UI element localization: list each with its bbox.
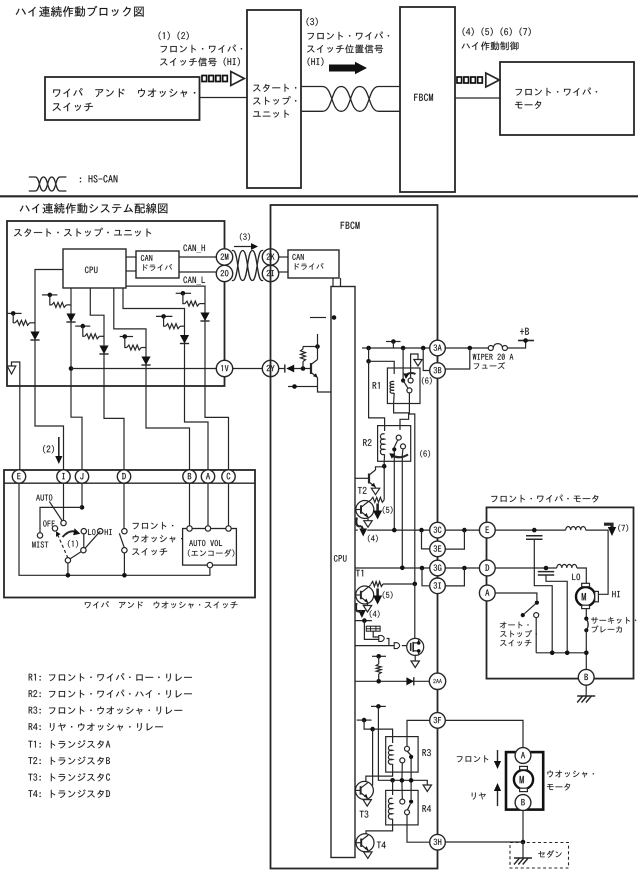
wire T2 drv emitter (367, 517, 369, 521)
block wiper-washer switch (45, 77, 200, 120)
+B tap (518, 338, 534, 343)
wire CPU pin net1 (35, 270, 63, 387)
arrow CAN signal (329, 62, 367, 74)
wire common to bus (67, 563, 69, 575)
wire cap E down (534, 539, 552, 653)
wire res to junction net1 (30, 322, 35, 324)
junction rail R3low (400, 778, 405, 783)
relay R3 contact top (405, 746, 410, 751)
wire D to washer contact (123, 483, 125, 528)
junction 3C 3E (419, 528, 424, 533)
label front direction (457, 755, 488, 762)
wire osc down (373, 631, 379, 637)
relay R2 coil (380, 434, 384, 455)
label CPU unit (85, 266, 98, 273)
connector 3B (430, 363, 446, 379)
wire cpu gate2 (355, 645, 394, 647)
label (7) (618, 524, 628, 532)
label T4 (377, 842, 386, 849)
resistor 2AA (376, 664, 381, 674)
legend T1 (28, 740, 110, 748)
signal arrow switch to unit (202, 72, 244, 86)
connector C switch (222, 470, 235, 483)
resistor pull-up net2 (52, 302, 67, 307)
wire T3 base (354, 789, 357, 791)
wire 1V to 2Y (233, 368, 263, 370)
leader AUTO (49, 501, 62, 520)
wire CPU pin net6 (114, 288, 146, 386)
arrow rear direction (494, 783, 501, 806)
wiper washer switch box (4, 470, 255, 598)
label washer motor l1 (547, 770, 593, 777)
wire fuse to +B (507, 341, 525, 349)
diode 2AA (406, 677, 413, 685)
label R3 (422, 749, 430, 756)
relay R4 coil (388, 798, 392, 819)
junction stub2 T3 (370, 727, 375, 732)
label start stop unit l2 (253, 96, 296, 105)
transistor T2 upper (369, 470, 376, 487)
wire R1 NO down (409, 393, 414, 584)
ground arrow T1 driver (363, 606, 371, 613)
wire res to junction net3 (99, 335, 104, 337)
connector 3F (430, 713, 446, 729)
wire 3E external loop (446, 530, 465, 549)
washer switch arm (119, 533, 124, 548)
arrow (7) (604, 524, 616, 536)
junction 2Y base (301, 366, 306, 371)
washer motor M (514, 766, 533, 791)
junction J line (80, 505, 85, 510)
junction 3G R2low (400, 566, 405, 571)
front wiper motor box (487, 507, 634, 678)
junction 3H ground (521, 840, 526, 845)
wire J to MIST (40, 507, 82, 532)
wire D coil to LO (577, 568, 587, 583)
label wiper and washer switch box (85, 601, 238, 608)
wire 2K to CAN driver (279, 256, 288, 258)
label (4) T1 (370, 610, 380, 618)
label front wiper switch signal l2 (160, 57, 240, 66)
wire T2 drv base (355, 509, 356, 511)
wire res top (302, 347, 304, 350)
ground motor B (577, 696, 595, 703)
wire rail gnd elbow (425, 780, 428, 785)
relay R1 contact NO (407, 388, 412, 393)
label high operation control (462, 41, 519, 50)
power stub net3 (75, 324, 90, 329)
wire net2 to J (71, 386, 82, 470)
connector 2K (262, 249, 278, 265)
rotation arrow wiper switch (63, 528, 81, 537)
wire mosfet drain (414, 584, 416, 639)
relay R2 actuation arrow (389, 453, 408, 459)
wire R4 low to 3H (407, 815, 429, 842)
wire 3A-3B link (437, 356, 439, 363)
connector E switch (12, 470, 25, 483)
junction rail R1 (401, 346, 406, 351)
wire R2 coil bottom (383, 455, 385, 500)
contact arm tap (81, 548, 86, 553)
wire stub2 drop (392, 342, 394, 349)
label M washer (520, 776, 524, 783)
junction net2 1V line (69, 366, 74, 371)
label (6) R1 (422, 377, 432, 385)
label CPU FBCM (334, 555, 347, 562)
inductor E (566, 527, 586, 531)
resistor T1 drive (371, 582, 383, 587)
relay R4 box (386, 790, 418, 825)
wire 3I external loop (446, 568, 465, 586)
connector 3A (430, 340, 446, 356)
wire C to AUTO VOL (228, 483, 230, 526)
label CAN driver FBCM (295, 263, 324, 270)
wire gate2 out (402, 645, 407, 647)
autostop contact fixed (534, 613, 539, 618)
resistor pull-up net4 (185, 301, 200, 306)
diode net1 (30, 332, 39, 341)
label front washer switch l2 (133, 535, 183, 543)
wire res to junction net4 (199, 303, 205, 305)
wire stub drop net4 (183, 293, 185, 303)
wire stub2 to emitter (304, 386, 318, 388)
label (1)(2) (158, 32, 188, 41)
arrow (2) (55, 437, 62, 464)
diode net6 (141, 357, 150, 366)
wire E coil to corner (586, 530, 608, 594)
wire 3B external elbow (445, 348, 470, 369)
power stub net1 (7, 311, 22, 316)
relay R1 pivot (401, 378, 405, 382)
power stub net2 (42, 293, 57, 298)
relay R3 contact low (400, 758, 405, 763)
wire net3 to D (104, 386, 124, 470)
label front wiper switch signal l1 (161, 45, 243, 53)
legend R3 (29, 706, 183, 714)
relay R1 box (387, 368, 420, 404)
relay R2 pivot (392, 447, 396, 451)
wire 2I to CAN driver (279, 271, 288, 273)
wire CAN driver to CPU a (332, 278, 334, 287)
transistor T2 driver circle (356, 501, 374, 519)
relay R3 arm (407, 751, 411, 755)
inductor D (557, 564, 577, 568)
wire stub drop net5 (164, 316, 166, 326)
diode 2Y input (285, 364, 294, 372)
wire stub drop net1 (13, 313, 15, 322)
relay R3 coil (388, 745, 392, 764)
label front wiper motor l2 (515, 101, 541, 109)
label CAN driver unit (143, 264, 172, 271)
label breaker l2 (592, 625, 622, 632)
arrow to (6) R1 (414, 360, 422, 367)
legend HS-CAN text (80, 175, 117, 182)
wire stub drop net6 (125, 337, 127, 348)
switch box strip line (4, 482, 255, 484)
wire +B rail (378, 347, 429, 349)
wire R3 low down (401, 763, 403, 799)
wire T2 base (355, 477, 369, 479)
contact washer bottom (122, 548, 127, 553)
label HI motor (612, 591, 619, 597)
wire washer B down (522, 810, 524, 842)
diode net3 (99, 346, 108, 355)
power stub 2Y (310, 315, 336, 320)
legend R4 (29, 723, 163, 731)
resistor pull-up net5 (166, 324, 181, 329)
wire gate1 out (387, 639, 389, 646)
autostop contact moving (521, 613, 525, 617)
arrow (4) T2 (356, 518, 367, 537)
label front wiper switch position l1 (308, 32, 390, 40)
capacitor E (526, 536, 543, 539)
legend HS-CAN twist symbol (29, 177, 67, 191)
CAN driver box unit (136, 251, 179, 278)
power stub net6 (120, 334, 133, 339)
divider line (0, 195, 638, 197)
power stub 2AA (372, 654, 386, 659)
connector 3I (430, 578, 446, 594)
wire stub2 to R3 coil (364, 720, 393, 743)
wire FBCM to motor (455, 97, 500, 99)
legend R2 (29, 690, 192, 698)
label front washer switch l1 (133, 522, 174, 529)
washer motor body (506, 752, 543, 810)
contact MIST (37, 533, 42, 538)
label breaker l1 (591, 617, 636, 624)
relay R1 arm (403, 381, 408, 389)
arrow (5) T2 (373, 504, 382, 520)
wire 2AA res top (378, 656, 380, 664)
relay R4 pivot (409, 800, 413, 804)
label CAN_H (183, 244, 205, 252)
label FBCM (341, 222, 360, 229)
junction T1 collector R1NO (413, 582, 418, 587)
block start-stop unit (247, 10, 301, 188)
relay R1 coil (390, 381, 394, 393)
wire 3C to E (446, 529, 480, 531)
wire T4 base (355, 842, 356, 844)
junction bus breaker (584, 651, 589, 656)
autostop arm (525, 604, 536, 614)
wire cap D down (546, 575, 567, 653)
wiper switch arm (68, 531, 100, 560)
wire CAN driver to CPU b (340, 278, 342, 287)
wire T2 collector (376, 467, 385, 470)
arrow front direction (494, 750, 501, 769)
connector D motor (479, 560, 495, 576)
CPU box unit (63, 249, 126, 288)
wire 1V (71, 368, 216, 370)
wire motor bottom (585, 609, 587, 619)
connector 3H (430, 834, 446, 850)
breaker top (584, 617, 588, 621)
connector 2Y (262, 360, 278, 376)
label autostop l3 (500, 640, 531, 647)
label fuse (474, 362, 505, 369)
dashed arm OFF (56, 531, 68, 558)
wire 3C stub (355, 529, 358, 531)
connector washer A (515, 748, 531, 764)
label (2) (43, 445, 54, 453)
wire R3 pivot down (410, 759, 412, 799)
connector 2O (216, 265, 232, 281)
label sedan (538, 850, 561, 858)
contact HI (98, 529, 103, 534)
wire gnd elbow E (12, 362, 20, 470)
resistor pull-up net6 (127, 345, 142, 350)
wire 3I riser (422, 568, 429, 586)
twisted pair 2M-2K (232, 251, 263, 281)
label encoder (188, 549, 235, 557)
wire net4 to C (205, 386, 229, 470)
power stub rail (362, 346, 378, 351)
sedan dashed box (510, 843, 569, 869)
wire 3F internal (407, 720, 429, 746)
AUTO VOL box (183, 529, 237, 566)
label LO (88, 529, 95, 535)
wire CPU to CAN driver 2 (126, 270, 136, 272)
junction 3G 3I (420, 566, 425, 571)
junction bus common (66, 573, 71, 578)
label T1 (356, 570, 363, 577)
label CAN FBCM (292, 254, 303, 260)
relay R4 contact left (400, 799, 405, 804)
connector 2I (262, 265, 278, 281)
FBCM box (271, 205, 438, 869)
wire T3 emitter (366, 798, 368, 800)
junction R1 coil feed (366, 359, 371, 364)
wire emitter down 2Y (318, 378, 332, 393)
ground arrow T2 driver (364, 521, 372, 528)
pin AUTO VOL C (226, 526, 231, 531)
ground arrow T3 (363, 800, 371, 807)
wire A internal (495, 593, 537, 600)
junction 2AA resistor (376, 679, 381, 684)
label R1 (373, 382, 380, 389)
wire 3C (367, 529, 429, 531)
wire D internal (495, 567, 557, 569)
wire CPU to CAN driver 1 (126, 256, 136, 258)
wire 2Y to diode (279, 368, 285, 370)
wire res to junction net5 (180, 325, 184, 327)
wire sedan ground stem (522, 842, 524, 858)
label T3 (360, 811, 369, 818)
wire CPU pin net4 (126, 286, 205, 386)
label R2 (363, 439, 371, 446)
label LO (572, 574, 580, 581)
relay R1 actuation arrow (403, 373, 415, 379)
power stub rail 2 (386, 339, 401, 344)
connector I switch (57, 470, 70, 483)
wire res to junction net6 (141, 347, 146, 349)
junction bus washer (122, 573, 127, 578)
CPU box FBCM (331, 287, 355, 858)
signal arrow FBCM to motor (457, 73, 499, 87)
title block diagram (16, 6, 144, 17)
junction D cap (544, 566, 549, 571)
transistor 2Y input (311, 360, 318, 378)
transistor T3 (355, 781, 373, 799)
contact washer top (122, 529, 127, 534)
wire R3 coil bottom (366, 764, 393, 782)
contact OFF (52, 526, 57, 531)
wire CPU pin net2 (70, 288, 72, 386)
label (1) (68, 540, 78, 548)
connector A switch (201, 470, 214, 483)
power stub net4 (176, 291, 191, 296)
wire B to AUTO VOL (189, 483, 191, 526)
gate 2 (394, 643, 399, 649)
arrow (3) direction (234, 243, 258, 250)
resistor pull-up net1 (15, 320, 30, 325)
wire res elbow (303, 346, 318, 348)
wire R1 coil feed (368, 348, 370, 361)
connector 2M (216, 249, 232, 265)
label start stop unit l1 (253, 84, 296, 92)
label R4 (422, 805, 431, 812)
label start stop unit l3 (253, 110, 289, 118)
capacitor D (538, 572, 554, 575)
wire T4 emitter (367, 850, 369, 852)
label start-stop unit (14, 228, 151, 237)
label (5) T2 (383, 506, 393, 514)
relay R3 pivot (409, 755, 413, 759)
connector 2AA (429, 673, 445, 689)
wire 3H external (446, 841, 523, 843)
power stub washer 2 (357, 718, 372, 723)
junction rail R3pivot (409, 778, 414, 783)
wire R2 low stem (401, 449, 404, 568)
wire net6 to B (146, 386, 190, 470)
junction 3C-E loop (462, 528, 467, 533)
legend R1 (29, 673, 192, 681)
wire mosfet source (414, 655, 416, 661)
resistor T2 drive (371, 497, 384, 502)
wire R1 coil feed h (369, 361, 395, 374)
ground arrow T4 (364, 852, 372, 859)
ground arrow T2 upper (371, 488, 379, 495)
wire E bus (19, 483, 210, 575)
wire res to junction net2 (66, 304, 71, 306)
wire T1 drv emitter (367, 603, 369, 606)
wire R1 coil bottom (394, 393, 409, 430)
label front washer switch l3 (132, 548, 167, 555)
wire CPU pin net3 (90, 288, 104, 386)
label OFF (43, 520, 55, 526)
label HI (105, 529, 112, 535)
wire 3E riser (422, 530, 430, 549)
wire stub to junction 2Y (317, 334, 319, 347)
label wiper and washer switch line1 (53, 88, 195, 97)
wire CAN_H (179, 256, 216, 258)
contact common wiper (65, 558, 70, 563)
label wiper and washer switch line2 (53, 103, 93, 112)
label CAN unit (141, 255, 152, 261)
wire 3G-3I link (437, 576, 439, 578)
resistor 2Y pullup (301, 349, 306, 362)
wire switch to unit (200, 97, 248, 99)
relay R1 contact NC (408, 378, 413, 383)
label M front (582, 593, 586, 600)
label AUTO VOL (189, 540, 222, 546)
junction 3C R2pivot (392, 528, 397, 533)
label T2 (358, 487, 367, 494)
wire CAN_L (179, 271, 216, 273)
power stub washer 1 (371, 704, 386, 709)
relay R2 arm (394, 440, 397, 447)
connector 1V (216, 360, 232, 376)
